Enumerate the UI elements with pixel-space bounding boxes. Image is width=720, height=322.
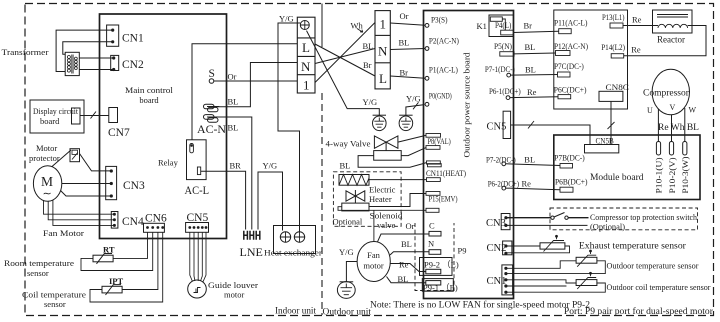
svg-text:P10-2(V): P10-2(V) [668,157,677,193]
svg-text:CN4: CN4 [122,216,144,228]
svg-text:Compressor top protection swit: Compressor top protection switch [590,212,698,222]
wire earth-cell down to heat exchanger [278,23,300,232]
pin P2 circle [425,47,429,51]
svg-text:Outdoor unit: Outdoor unit [323,307,372,317]
svg-text:BL: BL [398,274,409,284]
svg-text:CN3: CN3 [486,218,506,229]
svg-text:Coil temperature: Coil temperature [22,290,86,300]
svg-text:Outdoor temperature sensor: Outdoor temperature sensor [607,261,699,271]
connector P6C pin [558,95,571,99]
svg-text:board: board [139,95,159,105]
svg-text:Indoor unit: Indoor unit [275,306,317,316]
connector N [429,250,441,255]
svg-text:Y/G: Y/G [339,247,354,257]
wire compressor W [684,108,686,142]
wires CN5 to louver motor [190,232,206,281]
connector P7C pin [558,72,571,77]
wire N-terminal to fuse F1 [216,63,298,107]
wire compressor U [657,109,659,142]
svg-text:Br: Br [524,21,533,31]
svg-text:motor: motor [363,261,383,271]
wire fan to C (Or) [378,234,430,242]
svg-text:Main control: Main control [125,85,174,95]
connector CN2 [111,55,119,70]
connector CN1 outdoor [502,265,513,295]
svg-text:Reactor: Reactor [657,35,685,45]
pin P6-1 [506,96,510,100]
svg-text:∼: ∼ [43,188,52,200]
svg-text:BL: BL [340,161,351,171]
wire cross 1 to 1 [315,23,375,83]
wire P5 to P12 [514,52,555,55]
wire outdoor1 to P3 [390,23,425,25]
connector P13 pin [610,23,623,28]
transformer T1 [65,52,79,75]
wire fan to P9-1 (BL) [387,277,426,283]
svg-text:K1: K1 [477,21,487,31]
svg-text:Motor: Motor [36,143,57,153]
wire CN8C down to CN5B with cross [608,101,615,144]
connector CN4 [111,212,118,229]
svg-text:sensor: sensor [27,268,49,278]
svg-text:P6C(DC+): P6C(DC+) [554,86,587,95]
wire L-terminal to relay [192,44,298,140]
svg-text:Outdoor power source board: Outdoor power source board [462,52,472,158]
svg-text:P2(AC-N): P2(AC-N) [429,37,459,46]
svg-text:sensor: sensor [44,299,66,309]
svg-text:Display circuit: Display circuit [33,106,79,116]
svg-text:L: L [302,40,310,55]
svg-text:Exhaust temperature sensor: Exhaust temperature sensor [579,241,686,251]
wire earth2 to P0 with break [406,102,425,115]
svg-text:Or: Or [228,72,237,82]
svg-text:Y/G: Y/G [363,97,378,107]
svg-text:N: N [378,44,388,59]
svg-text:BL: BL [363,41,374,51]
wire fan to N (BL) [390,252,429,255]
connector CN5 outdoor board [503,111,511,138]
thermistor IPT [102,285,122,295]
svg-text:Compressor: Compressor [643,89,690,99]
svg-text:BL: BL [401,239,412,249]
svg-text:(Optional): (Optional) [590,222,625,232]
wire fuse F2 to LNE-N [216,117,252,230]
connector CN3 [106,166,117,199]
svg-text:P3(S): P3(S) [431,16,448,25]
svg-text:M: M [41,174,53,189]
svg-text:motor: motor [224,290,244,300]
wire transformer to CN2-pin1 [79,57,113,59]
svg-text:Or: Or [406,221,415,231]
compressor [652,69,689,114]
svg-text:BL: BL [525,42,536,52]
earth symbol outdoor 1 [373,115,387,130]
wire CN2 to exhaust sensor [506,246,570,253]
reactor [653,10,693,33]
display circuit board [30,100,84,133]
wire CN1 to outdoor temp sensor [506,261,605,274]
svg-text:Re Wh BL: Re Wh BL [658,123,699,133]
module board upper box [554,10,628,109]
main control board [100,14,227,239]
connector P6B pin [560,187,573,192]
pin P7-1 [507,73,511,77]
pin P10-3 [683,142,687,156]
svg-text:P0(GND): P0(GND) [429,92,452,101]
svg-text:CN2: CN2 [122,59,144,71]
earth symbol fan [337,282,355,299]
wire P6-1 to P6C [510,96,558,99]
relay RL [187,140,207,180]
svg-text:U: U [647,106,653,115]
svg-text:BL: BL [228,97,239,107]
thermistor outdoor temp [576,250,597,267]
svg-text:P13(L1): P13(L1) [602,13,625,22]
wire P7-2 to P7B [506,164,560,166]
wire P13 to reactor [623,25,658,27]
connector P15 pins [426,192,440,213]
connector P12 pin [556,51,571,56]
compressor top protection switch dashed box [550,208,698,230]
motor protector [70,149,80,162]
svg-text:Optional: Optional [333,217,363,227]
wire to fan motor top [373,210,375,241]
wire fan to P9-2 (Re) [390,264,426,272]
svg-text:P7-2(DC-): P7-2(DC-) [486,156,516,165]
wire reactor to P14 [624,26,706,56]
svg-text:N: N [301,59,311,74]
svg-text:P8(VAL): P8(VAL) [428,137,452,146]
svg-text:P10-3(W): P10-3(W) [681,156,690,193]
indoor/outdoor separator (dashed) [321,93,323,315]
fan motor outdoor [357,242,390,282]
P9 dashed bracket [415,223,454,291]
svg-text:Port: P9 pair port for dual-sp: Port: P9 pair port for dual-speed motor [564,306,713,316]
indoor terminal earth screw [300,21,309,30]
svg-text:Relay: Relay [158,158,179,168]
svg-text:RT: RT [103,245,115,255]
electric heater element [339,175,369,186]
svg-text:BL: BL [525,65,536,75]
svg-text:P7-1(DC-): P7-1(DC-) [485,65,515,74]
wire 4way-valve top to P8 [398,135,426,142]
wire fan to earth [346,262,357,282]
wire CN5 to CN5B with break [511,121,590,145]
wire motor to protector [52,150,71,167]
wire P7-1 to P7C [511,74,558,77]
svg-text:CN5: CN5 [187,212,209,224]
connector P8(VAL) pins [426,134,441,150]
P9-1 connector box [422,279,453,292]
wire cross L to L [315,44,375,76]
svg-text:Y/G: Y/G [263,161,278,171]
fuse F2 [204,115,220,123]
svg-text:P14(L2): P14(L2) [601,43,625,52]
svg-text:CN5: CN5 [487,122,507,133]
svg-text:CN6: CN6 [145,213,167,225]
svg-text:protector: protector [29,153,60,163]
svg-text:Fan: Fan [367,250,381,260]
svg-text:Or: Or [400,11,409,21]
wire Wh arrow [357,29,363,33]
connector P14 pin [611,54,624,58]
connector CN6 [144,223,165,232]
svg-text:P6-1(DC+): P6-1(DC+) [489,87,521,96]
pin P10-1 [656,142,660,156]
svg-text:P4(L): P4(L) [495,21,512,30]
svg-text:P9: P9 [458,246,467,256]
indoor/outdoor separator (upper solid segment) [321,4,323,48]
connector C [429,231,441,236]
thermistor RT [93,254,113,264]
svg-text:BL: BL [524,155,535,165]
svg-text:Re: Re [522,179,532,189]
optional dashed box indoor-heater [333,172,401,227]
svg-text:Electric: Electric [369,185,396,195]
svg-text:Outdoor coil temperature senso: Outdoor coil temperature sensor [607,282,711,292]
wire cross N to N [315,49,375,64]
svg-text:LNE: LNE [240,245,263,259]
wire display to CN7 with break [80,112,109,119]
connector CN3 outdoor [501,214,510,230]
svg-text:P5(N): P5(N) [494,42,512,51]
wire outdoorN to P2 [390,49,425,50]
svg-text:CN2: CN2 [487,243,507,254]
svg-text:CN5B: CN5B [596,136,615,146]
thermistor exhaust [540,235,565,251]
svg-text:BL: BL [399,38,410,48]
svg-text:V: V [670,103,676,112]
wire P6-2 to P6B [506,188,560,190]
pin P0 circle [425,102,429,106]
svg-text:CN1: CN1 [487,276,507,287]
relay K1 box [489,15,513,37]
svg-text:CN7: CN7 [108,127,130,139]
connector P7B pin [560,164,573,169]
4-way valve [374,136,402,160]
wire K1 to P11 [513,31,558,32]
svg-text:N: N [428,239,434,249]
thermistor outdoor coil [576,272,597,289]
svg-text:Br: Br [363,60,372,70]
svg-text:S: S [209,68,215,80]
svg-text:Y/G: Y/G [279,14,294,24]
connector CN7 [109,108,118,123]
connector CN1 [107,25,119,46]
svg-text:IPT: IPT [109,276,124,286]
svg-text:P7C(DC-): P7C(DC-) [554,62,584,71]
wire CN1 to outdoor coil sensor [506,280,605,292]
wire motor to CN3-pin3 [61,191,112,197]
svg-text:valve: valve [377,220,396,230]
wire motor to CN4-pin2 [48,201,114,220]
svg-text:Re: Re [631,45,641,55]
wire motor to CN4-pin1 [44,201,115,215]
wire CN1-pin2 to transformer [63,42,113,55]
svg-text:4-way Valve: 4-way Valve [326,139,371,149]
svg-text:Re: Re [632,15,642,25]
svg-text:P15(EMV): P15(EMV) [429,194,458,203]
outdoor power source board [424,11,514,299]
wire motor to CN3-pin2 [62,183,112,185]
wire solenoid to P15 [369,194,426,207]
svg-text:Y/G: Y/G [406,94,421,104]
svg-text:Heater: Heater [369,194,392,204]
module board [554,135,700,200]
fuse F1 [204,104,220,112]
heat exchanger [274,226,316,254]
svg-text:P6B(DC+): P6B(DC+) [555,178,588,187]
svg-text:BR: BR [230,161,242,171]
svg-text:P10-1(U): P10-1(U) [655,157,664,193]
wire LNE-E to heat exchanger (Y/G) [258,172,283,231]
svg-text:P6-2(DC+): P6-2(DC+) [488,180,520,189]
svg-text:1: 1 [303,78,310,93]
wire solenoid left to fan area [338,207,426,211]
wire CN3-pin2 return [506,224,588,226]
wire outdoorL to P1 [390,76,425,78]
svg-text:AC-N: AC-N [197,122,226,136]
wire protector to CN3-pin1 [80,154,112,171]
svg-text:Room temperature: Room temperature [4,258,74,268]
wire compressor V [671,115,673,142]
svg-text:L: L [379,71,387,86]
svg-text:Transformer: Transformer [2,48,49,57]
connector P11 pin [559,29,572,34]
wire S to terminal 1 [214,80,298,82]
svg-text:CN1: CN1 [122,33,144,45]
connector S [209,79,214,84]
wire RT loop to CN6 [81,232,153,270]
connector CN8C [599,91,623,101]
svg-text:Re: Re [527,87,537,97]
svg-text:AC-L: AC-L [185,183,210,197]
P9-2 connector box [420,258,453,276]
svg-text:C: C [429,221,435,231]
svg-text:P9-1 （E): P9-1 （E) [423,283,458,293]
svg-text:Fan Motor: Fan Motor [43,228,84,238]
wire 4way-valve coil right to P8 [401,148,426,156]
svg-text:Note: There is no LOW FAN for: Note: There is no LOW FAN for single-spe… [370,300,590,310]
solenoid valve [342,190,369,211]
outdoor terminal block [375,11,390,89]
wire motor to CN4-pin3 [53,200,115,225]
connector P5(N) pin [500,52,514,56]
wire 4way-valve coil left loop (BL) [358,156,426,168]
svg-text:CN11(HEAT): CN11(HEAT) [426,169,466,178]
terminal LNE [244,231,260,240]
svg-text:W: W [689,106,697,115]
svg-text:P12(AC-N): P12(AC-N) [554,42,588,51]
svg-text:Heat exchanger: Heat exchanger [264,248,322,258]
svg-text:P11(AC-L): P11(AC-L) [554,19,588,28]
wire relay to LNE-L (BR) [201,171,246,229]
wire IPT loop to CN6 [90,232,163,302]
svg-text:P1(AC-L): P1(AC-L) [429,66,458,75]
wire heater to CN11 [369,179,427,181]
switch S1 [506,213,589,220]
svg-text:Module board: Module board [590,172,644,182]
connector CN5 indoor [186,223,209,233]
svg-text:Re: Re [399,260,409,270]
svg-text:CN3: CN3 [123,180,145,192]
connector CN5B [585,145,619,153]
wire CN1-pin1 to transformer [56,30,113,71]
svg-text:1: 1 [380,17,387,32]
svg-text:Guide louver: Guide louver [208,280,258,290]
earth symbol outdoor 2 [399,115,413,130]
wire earth diagonal indoor to outdoor earth [307,31,380,116]
pin P3 circle [425,24,429,28]
connector CN2 outdoor [503,241,512,255]
wire transformer to CN2-pin2 [79,69,113,71]
indoor terminal block [297,17,315,93]
pin P7-2 [502,162,506,166]
svg-text:CN8C: CN8C [606,82,630,92]
connector CN11 pins [427,161,442,182]
svg-text:P7B(DC-): P7B(DC-) [554,154,585,163]
pin P6-2 [502,186,506,190]
svg-text:Br: Br [400,68,409,78]
svg-text:BL: BL [228,123,239,133]
svg-text:Wh: Wh [351,21,364,31]
svg-text:board: board [40,116,60,126]
fan motor M [33,166,61,202]
guide louver motor [188,280,207,298]
svg-text:Solenoid: Solenoid [370,211,404,221]
pin P10-2 [669,142,673,156]
pin P1 circle [425,76,429,80]
svg-text:P9-2 （L): P9-2 （L) [424,260,459,270]
